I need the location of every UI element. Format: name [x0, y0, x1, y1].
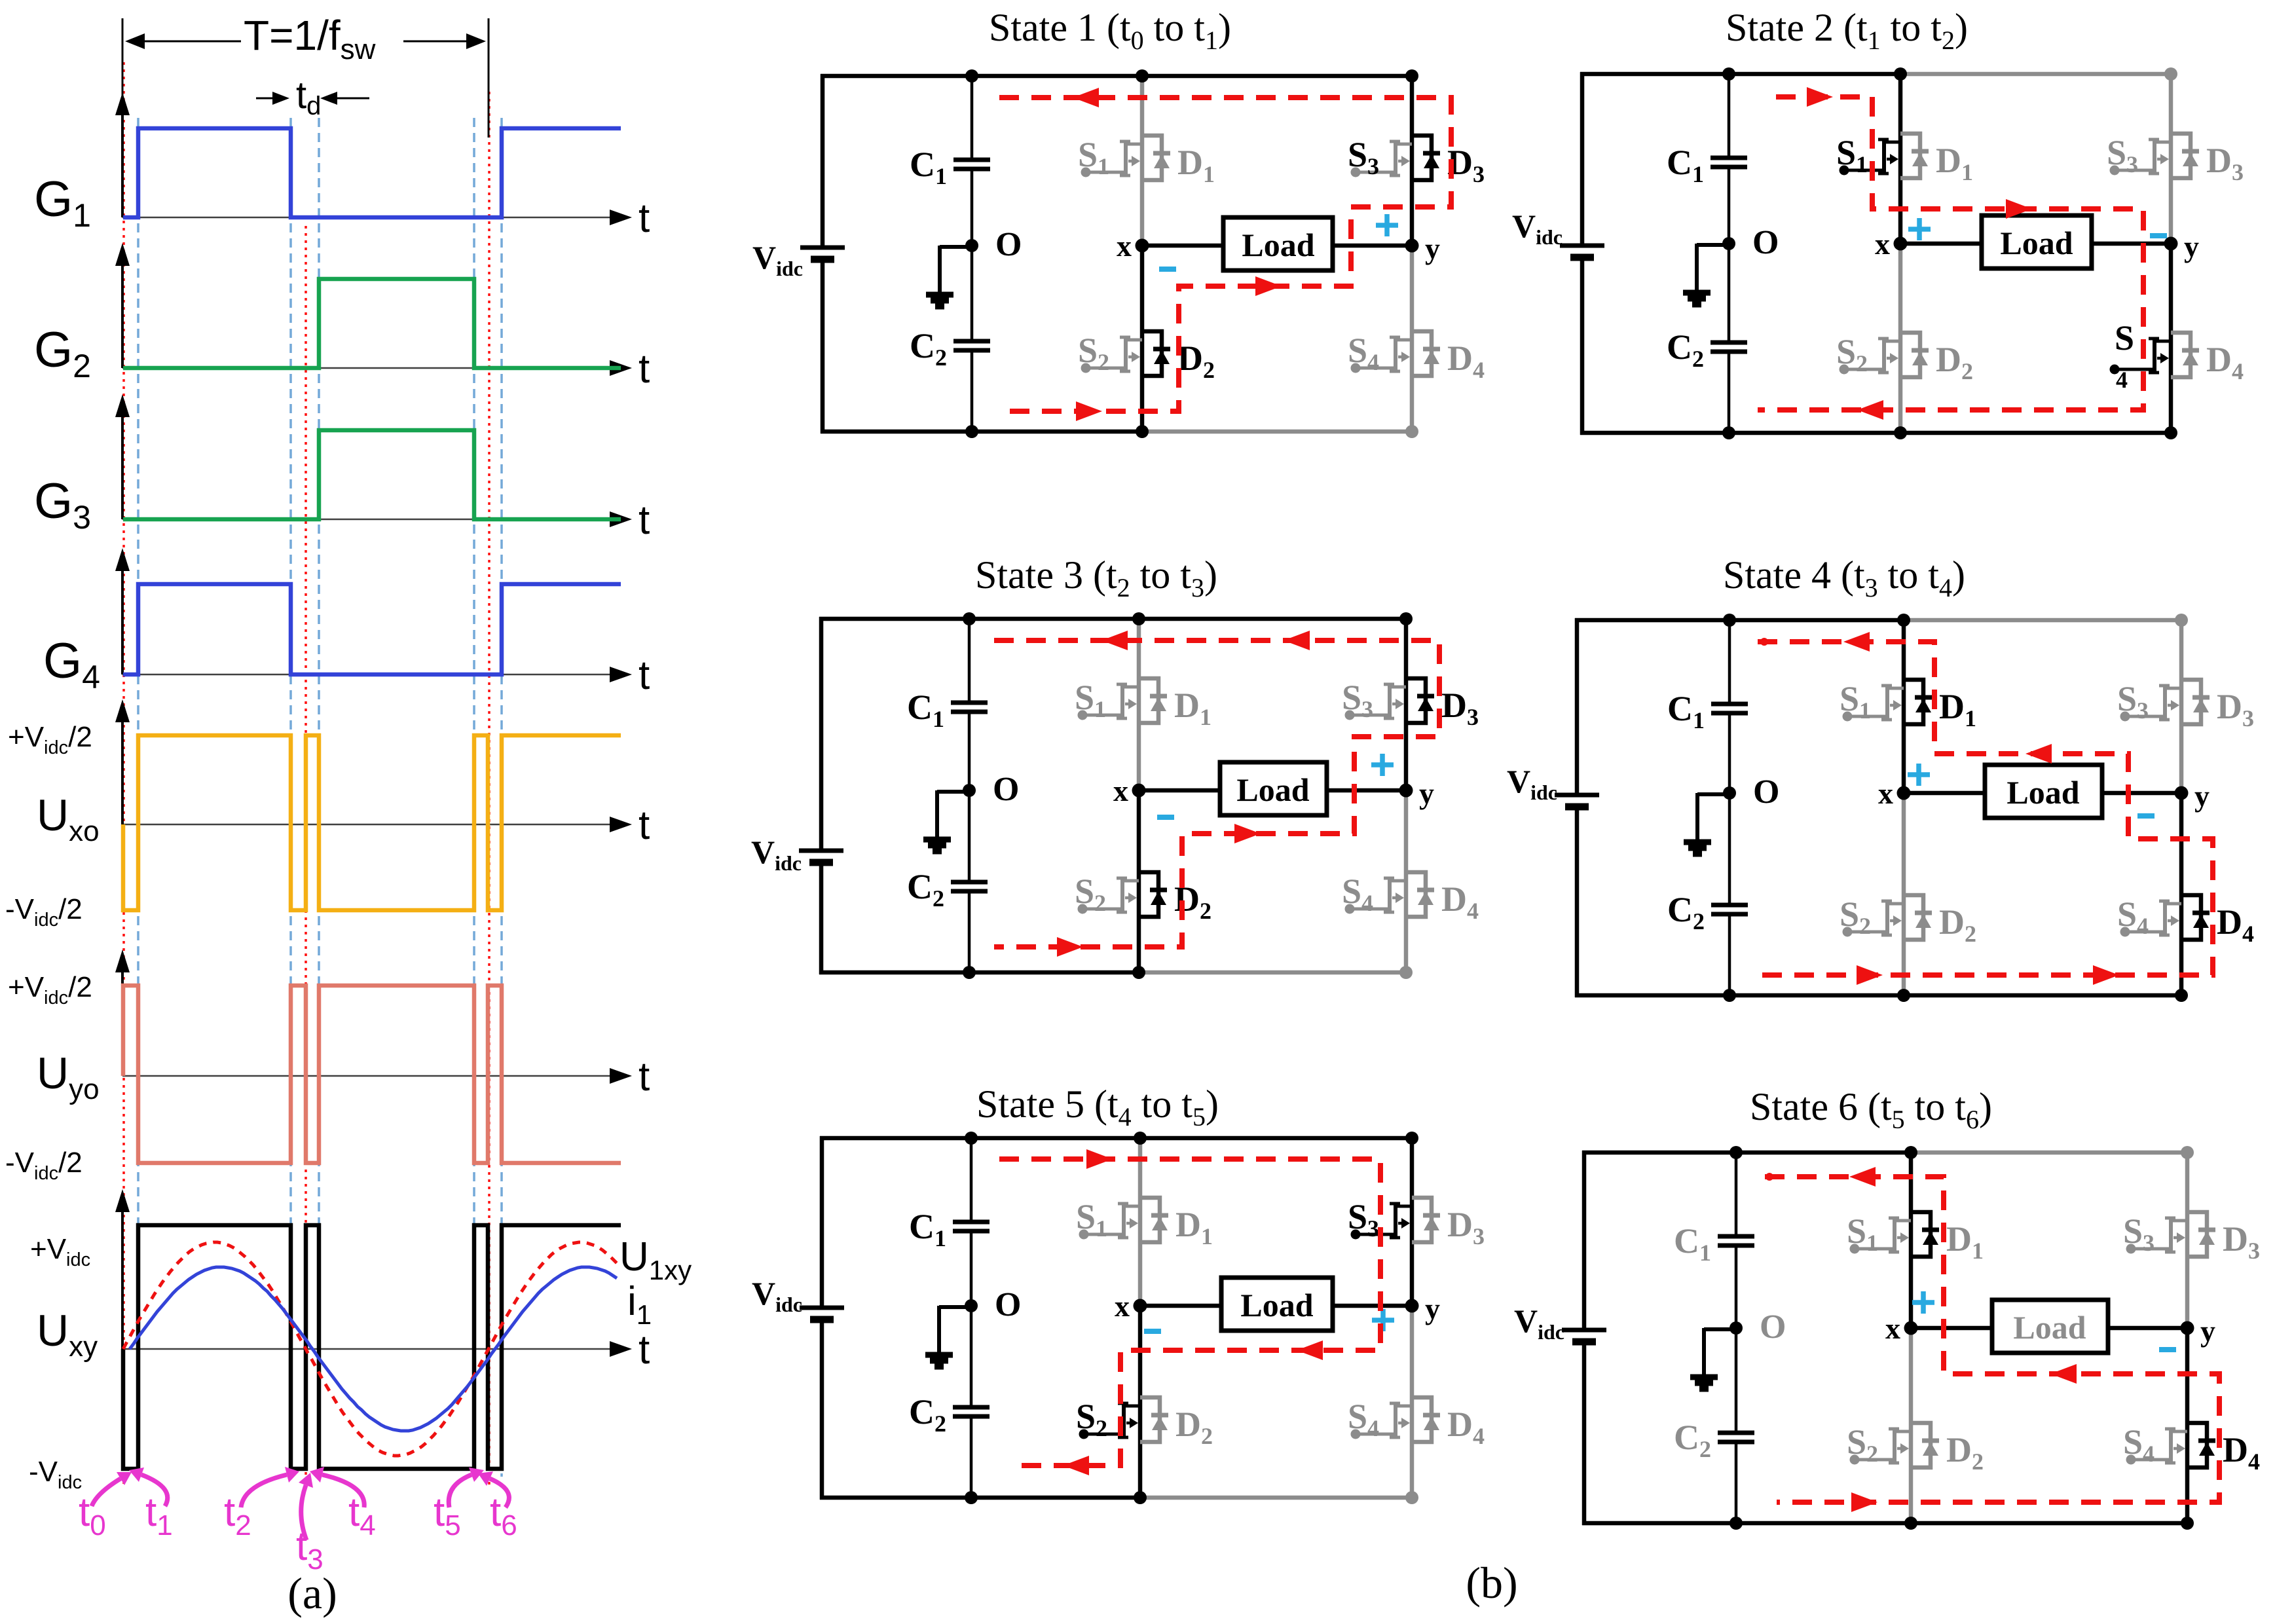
wire x branch upper (State 4) — [1902, 620, 1906, 793]
node top-x (State 2) — [1894, 67, 1907, 81]
svg-text:y: y — [1425, 232, 1440, 265]
label Load (State 1) — [1242, 227, 1314, 263]
wire x node to load (State 6) — [1911, 1326, 1992, 1331]
title State 4 — [1723, 553, 1965, 602]
label -Vidc (Uxy) — [29, 1456, 82, 1493]
label minus (State 2) — [2150, 233, 2167, 238]
node y (State 2) — [2164, 237, 2178, 251]
svg-text:x: x — [1117, 229, 1132, 263]
label D3 (State 2) — [2206, 141, 2244, 185]
wire capacitor branch middle (State 2) — [1728, 167, 1731, 342]
diode D2 (State 2) — [1900, 333, 1929, 377]
diode D1 (State 4) — [1904, 680, 1932, 724]
label y (State 2) — [2184, 230, 2199, 263]
label Load (State 5) — [1240, 1287, 1313, 1323]
label C1 (State 2) — [1667, 143, 1704, 187]
label S2 (State 6) — [1847, 1422, 1878, 1467]
ground (State 6) — [1690, 1328, 1736, 1389]
node top-capacitor (State 5) — [965, 1132, 978, 1145]
label O (State 1) — [995, 226, 1022, 263]
label C2 (State 1) — [910, 326, 947, 371]
wire battery branch (State 3) — [819, 617, 824, 974]
waveform Uxo — [123, 735, 621, 910]
label S3 (State 4) — [2117, 679, 2149, 724]
current path (State 4) — [1758, 632, 2213, 985]
diode D2 (State 4) — [1904, 895, 1932, 940]
label i1 — [627, 1279, 652, 1330]
transistor S2 (State 1) — [1081, 337, 1143, 373]
waveform G3 — [123, 430, 621, 519]
ground (State 1) — [926, 246, 972, 306]
dead-time arrow left — [256, 92, 289, 105]
svg-text:Load: Load — [1240, 1287, 1313, 1323]
label S1 (State 5) — [1076, 1197, 1107, 1242]
svg-text:State 2 (t1 to t2): State 2 (t1 to t2) — [1726, 6, 1968, 55]
wire x branch upper (State 3) — [1137, 619, 1141, 790]
label plus (State 4) — [1908, 764, 1930, 786]
wire top rail left (State 6) — [1582, 1151, 1913, 1155]
node x (State 1) — [1136, 239, 1149, 253]
label Vidc (State 3) — [751, 834, 802, 875]
label S2 (State 4) — [1840, 895, 1871, 939]
label (b) — [1466, 1558, 1517, 1608]
label D3 (State 4) — [2217, 687, 2254, 731]
svg-text:x: x — [1878, 777, 1893, 810]
label plus (State 6) — [1912, 1291, 1934, 1314]
label D1 (State 2) — [1936, 141, 1973, 185]
label D1 (State 3) — [1174, 686, 1211, 730]
wire top rail right (State 5) — [1140, 1136, 1414, 1141]
label -Vidc/2 (Uxo) — [5, 893, 83, 931]
transistor S2 (State 2) — [1840, 339, 1901, 375]
capacitor C1 (State 1) — [953, 160, 990, 169]
label S2 (State 1) — [1078, 331, 1109, 375]
label S4 (State 6) — [2123, 1422, 2155, 1467]
diode D4 (State 6) — [2187, 1423, 2215, 1467]
title State 2 — [1726, 6, 1968, 55]
wire battery branch (State 6) — [1582, 1151, 1587, 1525]
current path (State 5) — [999, 1149, 1380, 1475]
label C2 (State 6) — [1674, 1418, 1711, 1462]
transistor S2 (State 6) — [1850, 1429, 1912, 1465]
wire y branch lower (State 5) — [1410, 1306, 1415, 1498]
label t4 — [310, 1467, 376, 1541]
label C1 (State 3) — [907, 688, 944, 732]
label t6 — [478, 1471, 517, 1541]
time gridline t6 (red dotted) — [488, 92, 490, 1485]
label Load (State 6) — [2013, 1309, 2086, 1346]
label D1 (State 6) — [1946, 1219, 1984, 1264]
node bottom-x (State 4) — [1897, 989, 1910, 1002]
wire load to y node (State 1) — [1333, 244, 1412, 248]
wire top rail left (State 5) — [820, 1136, 1142, 1141]
wire capacitor branch middle (State 5) — [970, 1231, 973, 1407]
node bottom-capacitor (State 6) — [1729, 1517, 1743, 1530]
label t2 — [224, 1467, 299, 1541]
load box (State 5) — [1221, 1278, 1333, 1331]
svg-text:O: O — [1760, 1308, 1786, 1346]
current path (State 1) — [999, 88, 1451, 421]
load box (State 2) — [1982, 215, 2092, 268]
wire x node to load (State 5) — [1140, 1304, 1221, 1308]
title State 5 — [976, 1082, 1219, 1132]
ground (State 4) — [1684, 793, 1729, 854]
label minus (State 4) — [2137, 813, 2155, 819]
label S3 (State 1) — [1348, 135, 1379, 179]
label Load (State 4) — [2007, 774, 2079, 811]
wire capacitor branch middle (State 4) — [1728, 713, 1731, 905]
waveform G4 — [123, 584, 621, 674]
label y (State 5) — [1425, 1292, 1440, 1325]
transistor S1 (State 3) — [1078, 684, 1139, 720]
diode D3 (State 4) — [2181, 680, 2210, 724]
wire y branch upper (State 6) — [2185, 1153, 2190, 1328]
label S2 (State 2) — [1836, 332, 1868, 377]
waveform G2 — [123, 279, 621, 368]
wire y branch lower (State 4) — [2179, 793, 2184, 995]
battery Vidc (State 6) — [1562, 1330, 1606, 1342]
node x (State 6) — [1904, 1321, 1918, 1335]
capacitor C1 (State 2) — [1711, 158, 1747, 167]
label minus (State 6) — [2159, 1347, 2176, 1352]
label S1 (State 6) — [1847, 1211, 1878, 1256]
wire capacitor branch middle (State 6) — [1735, 1246, 1738, 1433]
wire capacitor branch lower (State 2) — [1728, 352, 1731, 433]
battery Vidc (State 2) — [1560, 246, 1604, 257]
wire bottom rail left (State 4) — [1575, 993, 1906, 998]
label +Vidc/2 (Uxo) — [8, 721, 92, 758]
label x (State 1) — [1117, 229, 1132, 263]
svg-text:y: y — [2184, 230, 2199, 263]
node y (State 6) — [2181, 1321, 2194, 1335]
label O (State 4) — [1753, 773, 1779, 811]
diode D1 (State 5) — [1140, 1198, 1168, 1242]
svg-text:(a): (a) — [287, 1568, 337, 1618]
svg-text:Load: Load — [1242, 227, 1314, 263]
time gridline t3 (red dotted) — [305, 226, 307, 1485]
capacitor C2 (State 2) — [1711, 342, 1747, 352]
svg-text:State 1 (t0 to t1): State 1 (t0 to t1) — [989, 6, 1231, 55]
svg-text:O: O — [995, 226, 1022, 263]
label D1 (State 1) — [1177, 143, 1215, 187]
node top-capacitor (State 3) — [963, 612, 976, 625]
current path (State 6) — [1765, 1167, 2219, 1512]
wire bottom rail right (State 2) — [1900, 431, 2173, 435]
wire x node to load (State 2) — [1900, 242, 1982, 246]
transistor S3 (State 2) — [2110, 139, 2172, 175]
node O (State 6) — [1729, 1321, 1743, 1335]
wire x branch lower (State 6) — [1909, 1328, 1914, 1523]
node bottom-capacitor (State 3) — [963, 966, 976, 979]
period marker right bar — [488, 18, 490, 138]
diode D4 (State 1) — [1412, 331, 1440, 376]
diode D1 (State 1) — [1142, 136, 1170, 180]
node y (State 4) — [2175, 786, 2189, 800]
wire x branch lower (State 4) — [1902, 793, 1906, 995]
label D4 (State 1) — [1447, 339, 1485, 383]
label x (State 4) — [1878, 777, 1893, 810]
svg-text:State 5 (t4 to t5): State 5 (t4 to t5) — [976, 1082, 1219, 1132]
load box (State 1) — [1223, 217, 1333, 270]
wire top rail left (State 2) — [1580, 72, 1902, 77]
diode D4 (State 2) — [2171, 333, 2199, 377]
svg-text:S: S — [2115, 318, 2134, 358]
wire x branch lower (State 3) — [1137, 790, 1141, 972]
wire capacitor branch lower (State 6) — [1735, 1442, 1738, 1523]
wire load to y node (State 5) — [1333, 1304, 1412, 1308]
wire battery branch (State 2) — [1580, 72, 1585, 435]
wire load to y node (State 2) — [2092, 242, 2171, 246]
wire y branch lower (State 3) — [1404, 790, 1409, 972]
capacitor C2 (State 6) — [1718, 1433, 1754, 1442]
wire bottom rail left (State 5) — [820, 1496, 1142, 1500]
label D2 (State 3) — [1174, 879, 1211, 924]
wire battery branch (State 4) — [1575, 618, 1580, 997]
battery Vidc (State 1) — [800, 248, 845, 259]
ground (State 2) — [1683, 244, 1729, 304]
current path (State 3) — [994, 631, 1439, 957]
node O (State 4) — [1723, 786, 1736, 800]
svg-text:4: 4 — [2116, 367, 2128, 393]
svg-text:t: t — [638, 346, 650, 392]
label Vidc (State 4) — [1507, 763, 1557, 804]
time gridline t4 (blue dashed) — [318, 118, 320, 1477]
waveform G1 — [123, 128, 621, 217]
svg-text:t: t — [638, 196, 650, 241]
wire bottom rail right (State 3) — [1139, 970, 1408, 975]
label S3 (State 5) — [1348, 1197, 1379, 1242]
wire top rail right (State 6) — [1911, 1151, 2189, 1155]
diode D4 (State 3) — [1406, 872, 1434, 917]
wire x branch upper (State 5) — [1138, 1138, 1143, 1306]
label t3 — [296, 1473, 324, 1576]
label -Vidc/2 (Uyo) — [5, 1147, 83, 1184]
wire y branch lower (State 6) — [2185, 1328, 2190, 1523]
label S1 (State 3) — [1075, 678, 1106, 722]
wire x branch lower (State 2) — [1898, 244, 1903, 433]
capacitor C2 (State 5) — [953, 1407, 990, 1416]
svg-text:Load: Load — [2000, 225, 2073, 261]
ground (State 3) — [923, 790, 969, 851]
node bottom-capacitor (State 2) — [1722, 426, 1735, 439]
waveform Uxy — [123, 1225, 621, 1469]
title State 3 — [975, 553, 1217, 602]
waveform Uyo — [123, 986, 621, 1163]
label D2 (State 4) — [1939, 902, 1976, 947]
label Vidc (State 1) — [752, 239, 803, 280]
transistor S4 (State 4) — [2120, 901, 2182, 937]
diode D2 (State 1) — [1142, 331, 1170, 376]
node top-capacitor (State 2) — [1722, 67, 1735, 81]
transistor S3 (State 5) — [1351, 1204, 1413, 1240]
label y (State 6) — [2200, 1314, 2215, 1348]
label C2 (State 2) — [1667, 327, 1704, 372]
wire y branch upper (State 1) — [1410, 76, 1415, 246]
label D2 (State 6) — [1946, 1430, 1984, 1475]
diode D3 (State 2) — [2171, 134, 2199, 178]
battery Vidc (State 3) — [799, 851, 843, 862]
node top-x (State 6) — [1904, 1146, 1917, 1159]
label x (State 3) — [1113, 774, 1128, 807]
node bottom-capacitor (State 4) — [1723, 989, 1736, 1002]
label S4 (State 5) — [1348, 1397, 1379, 1441]
node O (State 3) — [963, 784, 976, 797]
diode D3 (State 3) — [1406, 678, 1434, 723]
svg-text:y: y — [2200, 1314, 2215, 1348]
wire y branch upper (State 5) — [1410, 1138, 1415, 1306]
transistor S1 (State 2) — [1840, 139, 1901, 175]
node top-capacitor (State 1) — [965, 69, 978, 83]
capacitor C2 (State 1) — [953, 341, 990, 350]
label D3 (State 5) — [1447, 1205, 1485, 1249]
node top-right corner (State 4) — [2175, 614, 2188, 627]
label plus (State 3) — [1371, 754, 1394, 776]
node bottom-x (State 5) — [1134, 1491, 1147, 1504]
battery Vidc (State 4) — [1555, 795, 1599, 807]
wire capacitor branch upper (State 5) — [970, 1138, 973, 1222]
time gridline t2 (blue dashed) — [289, 118, 292, 1477]
label Vidc (State 2) — [1512, 208, 1563, 249]
node top-x (State 5) — [1134, 1132, 1147, 1145]
label x (State 5) — [1115, 1289, 1130, 1323]
label D2 (State 1) — [1177, 339, 1215, 383]
wire capacitor branch lower (State 5) — [970, 1416, 973, 1498]
label C1 (State 1) — [910, 145, 947, 189]
wire x node to load (State 3) — [1139, 788, 1220, 793]
wire top rail right (State 2) — [1900, 72, 2173, 77]
curve i1 (load current, blue sine) — [130, 1267, 617, 1431]
svg-text:y: y — [1419, 777, 1434, 810]
svg-text:t: t — [638, 803, 650, 848]
transistor S4 (State 3) — [1345, 878, 1407, 914]
diode D1 (State 6) — [1911, 1212, 1939, 1257]
transistor S4 (State 5) — [1351, 1403, 1413, 1439]
dead-time arrow right — [320, 92, 369, 105]
wire y branch upper (State 3) — [1404, 619, 1409, 790]
label D3 (State 6) — [2223, 1219, 2260, 1264]
svg-text:State 3 (t2 to t3): State 3 (t2 to t3) — [975, 553, 1217, 602]
label S2 (State 5) — [1076, 1397, 1107, 1441]
diode D3 (State 5) — [1412, 1198, 1440, 1242]
label O (State 2) — [1752, 224, 1779, 261]
wire load to y node (State 3) — [1327, 788, 1406, 793]
label D3 (State 1) — [1447, 143, 1485, 187]
diode D4 (State 4) — [2181, 895, 2210, 940]
node bottom-x (State 2) — [1894, 426, 1907, 439]
capacitor C1 (State 4) — [1711, 704, 1748, 713]
transistor S2 (State 5) — [1079, 1403, 1141, 1439]
wire x branch lower (State 5) — [1138, 1306, 1143, 1498]
label D1 (State 4) — [1939, 687, 1976, 731]
label C2 (State 3) — [907, 867, 944, 912]
wire capacitor branch middle (State 3) — [968, 712, 971, 882]
node y (State 3) — [1399, 784, 1413, 798]
wire x branch lower (State 1) — [1140, 246, 1145, 432]
node top-right corner (State 6) — [2181, 1146, 2194, 1159]
label C1 (State 5) — [909, 1207, 946, 1251]
node bottom-capacitor (State 5) — [965, 1491, 978, 1504]
transistor S3 (State 3) — [1345, 684, 1407, 720]
label U1xy — [620, 1234, 692, 1285]
transistor S4 (State 1) — [1351, 337, 1413, 373]
label D4 (State 6) — [2223, 1430, 2260, 1475]
wire x node to load (State 4) — [1904, 791, 1985, 796]
node x (State 3) — [1132, 784, 1146, 798]
label C1 (State 4) — [1667, 689, 1705, 733]
time gridline t1 (blue dashed) — [137, 118, 139, 1477]
axis G3 — [34, 394, 650, 543]
transistor S3 (State 6) — [2126, 1218, 2188, 1254]
wire capacitor branch middle (State 1) — [971, 169, 974, 341]
wire capacitor branch upper (State 4) — [1728, 620, 1731, 704]
axis Uxy — [37, 1189, 650, 1373]
node top-x (State 3) — [1132, 612, 1145, 625]
transistor S3 (State 1) — [1351, 141, 1413, 177]
wire capacitor branch upper (State 6) — [1735, 1153, 1738, 1236]
svg-text:Load: Load — [2007, 774, 2079, 811]
diode D3 (State 6) — [2187, 1212, 2215, 1257]
label D1 (State 5) — [1175, 1205, 1213, 1249]
label S1 (State 2) — [1836, 133, 1868, 177]
transistor S2 (State 3) — [1078, 878, 1139, 914]
node bottom-x (State 3) — [1132, 966, 1145, 979]
svg-text:y: y — [1425, 1292, 1440, 1325]
node x (State 2) — [1894, 237, 1908, 251]
wire y branch lower (State 2) — [2169, 244, 2173, 433]
wire x branch upper (State 2) — [1898, 74, 1903, 244]
axis G1 — [34, 92, 650, 241]
svg-text:y: y — [2194, 779, 2210, 813]
node bottom-right corner (State 2) — [2164, 426, 2177, 439]
node O (State 5) — [965, 1299, 978, 1312]
label plus (State 1) — [1376, 214, 1398, 236]
wire top rail right (State 4) — [1904, 618, 2183, 623]
label D3 (State 3) — [1441, 686, 1479, 730]
label S4 (State 2) — [2115, 318, 2134, 393]
transistor S4 (State 6) — [2126, 1429, 2188, 1465]
label D4 (State 4) — [2217, 902, 2254, 947]
battery Vidc (State 5) — [800, 1308, 844, 1319]
wire top rail left (State 1) — [821, 74, 1144, 79]
label C1 (State 6) — [1674, 1221, 1711, 1266]
svg-text:Load: Load — [1236, 771, 1309, 808]
label minus (State 1) — [1159, 267, 1176, 272]
wire top rail right (State 3) — [1139, 617, 1408, 621]
label D4 (State 2) — [2206, 340, 2244, 384]
wire top rail right (State 1) — [1142, 74, 1414, 79]
wire bottom rail right (State 6) — [1911, 1521, 2189, 1526]
label y (State 1) — [1425, 232, 1440, 265]
wire bottom rail left (State 3) — [819, 970, 1141, 975]
label Load (State 2) — [2000, 225, 2073, 261]
label td — [296, 74, 321, 120]
label S4 (State 1) — [1348, 331, 1379, 375]
svg-text:t: t — [638, 653, 650, 698]
node O (State 2) — [1722, 237, 1735, 250]
label O (State 5) — [995, 1286, 1021, 1323]
wire bottom rail right (State 4) — [1904, 993, 2183, 998]
node top-x (State 1) — [1136, 69, 1149, 83]
capacitor C1 (State 6) — [1718, 1236, 1754, 1246]
node bottom-right corner (State 6) — [2181, 1517, 2194, 1530]
svg-text:(b): (b) — [1466, 1558, 1517, 1608]
node bottom-capacitor (State 1) — [965, 425, 978, 438]
node top-right corner (State 2) — [2164, 67, 2177, 81]
svg-text:t: t — [638, 1327, 650, 1373]
label O (State 3) — [993, 771, 1019, 808]
axis Uyo — [37, 950, 650, 1105]
node top-capacitor (State 4) — [1723, 614, 1736, 627]
